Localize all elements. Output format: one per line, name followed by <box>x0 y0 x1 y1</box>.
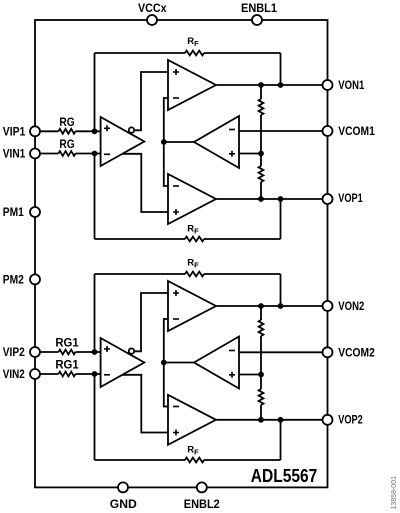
pin PM1 <box>30 207 40 217</box>
wire center vertical to - inputs ch1 <box>164 98 168 186</box>
minus sign top amp ch2 <box>173 318 179 320</box>
junction resistor midpoint ch1 <box>258 151 264 157</box>
minus sign top amp ch1 <box>173 97 179 99</box>
wire vocm amp - input to VCOM2 <box>239 351 323 353</box>
resistor RF (bottom ch2) <box>185 458 204 463</box>
wire top amp output to VON1 <box>216 84 323 86</box>
plus sign top amp ch2 <box>173 290 179 296</box>
op-amp top output stage ch1 <box>168 60 216 110</box>
plus sign input amp ch2 <box>104 346 110 352</box>
pin GND <box>118 482 128 492</box>
wire VIN2 to input amp - <box>40 373 100 375</box>
pin ENBL2 <box>197 482 207 492</box>
svg-text:PM2: PM2 <box>3 272 24 286</box>
wire top RF right tap ch1 <box>280 53 282 85</box>
wire bottom amp output to VOP1 <box>216 198 323 200</box>
pin VCOM1 <box>323 126 333 136</box>
pin VCCx <box>147 15 157 25</box>
pin VIN1 <box>30 149 40 159</box>
wire feedback left vertical upper ch1 <box>94 53 96 131</box>
junction VON2 feedback tap ch2 <box>278 303 284 309</box>
wire vocm amp + input to resistor midpoint ch1 <box>239 153 261 155</box>
svg-text:RG: RG <box>59 115 74 129</box>
op-amp top output stage ch2 <box>168 281 216 331</box>
op-amp input stage ch2 <box>101 338 145 387</box>
resistor RG (lower ch1) <box>59 151 76 156</box>
junction VON1 output node ch1 <box>258 82 264 88</box>
svg-text:VIP2: VIP2 <box>3 345 25 359</box>
op-amp input stage ch1 <box>101 117 145 166</box>
wire lower output to bottom amp + ch2 <box>122 375 169 433</box>
plus sign top amp ch1 <box>173 69 179 75</box>
minus sign input amp ch1 <box>104 153 110 155</box>
wire center vertical to - inputs ch2 <box>164 319 168 407</box>
inverting output bubble ch2 <box>129 348 134 353</box>
pin VOP2 <box>323 415 333 425</box>
op-amp vocm stage ch2 <box>194 337 239 389</box>
junction VIP1/RG node ch1 <box>92 128 98 134</box>
wire VIN1 to input amp - <box>40 153 100 155</box>
svg-text:ENBL2: ENBL2 <box>184 497 220 511</box>
svg-text:ADL5567: ADL5567 <box>251 465 318 486</box>
pin VIP2 <box>30 347 40 357</box>
wire bubble output to top amp + ch1 <box>135 72 168 130</box>
plus sign vocm amp ch1 <box>229 151 235 157</box>
wire top RF feedback ch1 <box>95 52 281 54</box>
wire top RF right tap ch2 <box>280 274 282 306</box>
pin PM2 <box>30 274 40 284</box>
inverting output bubble ch1 <box>129 127 134 132</box>
svg-text:13858-001: 13858-001 <box>391 476 398 510</box>
svg-text:VOP2: VOP2 <box>338 413 363 427</box>
svg-text:VON2: VON2 <box>338 299 364 313</box>
wire resistor chain ch1 <box>260 85 262 199</box>
svg-text:RF: RF <box>187 258 199 270</box>
plus sign bottom amp ch2 <box>173 430 179 436</box>
wire feedback left vertical upper ch2 <box>94 274 96 352</box>
wire bottom RF feedback ch1 <box>95 238 281 240</box>
op-amp bottom output stage ch2 <box>168 395 216 445</box>
wire resistor chain ch2 <box>260 306 262 420</box>
junction VON1 feedback tap ch1 <box>278 82 284 88</box>
wire bottom RF feedback ch2 <box>95 459 281 461</box>
svg-text:VIN1: VIN1 <box>3 147 26 161</box>
wire bottom amp output to VOP2 <box>216 419 323 421</box>
outer package border <box>35 20 328 487</box>
svg-text:VIN2: VIN2 <box>3 367 25 381</box>
wire bubble output to top amp + ch2 <box>135 293 168 351</box>
junction VOP2 feedback tap ch2 <box>278 417 284 423</box>
wire bottom RF right tap ch1 <box>280 199 282 239</box>
wire bottom RF right tap ch2 <box>280 420 282 460</box>
pin VIP1 <box>30 126 40 136</box>
svg-text:RG1: RG1 <box>55 336 79 350</box>
resistor RG1 (lower ch2) <box>59 372 76 377</box>
junction VIN1/RG node ch1 <box>92 151 98 157</box>
junction VIP2/RG1 node ch2 <box>92 349 98 355</box>
junction VOP1 output node ch1 <box>258 196 264 202</box>
svg-text:VCOM2: VCOM2 <box>338 345 375 359</box>
resistor RG1 (upper ch2) <box>59 350 76 355</box>
svg-text:VOP1: VOP1 <box>338 191 363 205</box>
minus sign vocm amp ch2 <box>229 350 235 352</box>
op-amp bottom output stage ch1 <box>168 174 216 224</box>
pin VIN2 <box>30 369 40 379</box>
pin VON2 <box>323 301 333 311</box>
svg-text:VON1: VON1 <box>338 78 364 92</box>
resistor RF (top ch1) <box>185 51 204 56</box>
wire lower output to bottom amp + ch1 <box>122 154 169 212</box>
pin VON1 <box>323 80 333 90</box>
plus sign vocm amp ch2 <box>229 372 235 378</box>
junction VOP1 feedback tap ch1 <box>278 196 284 202</box>
plus sign input amp ch1 <box>104 125 110 131</box>
svg-text:VCOM1: VCOM1 <box>338 124 375 138</box>
resistor RF (top ch2) <box>185 272 204 277</box>
pin VCOM2 <box>323 347 333 357</box>
svg-text:RF: RF <box>187 223 199 235</box>
junction resistor midpoint ch2 <box>258 372 264 378</box>
minus sign bottom amp ch1 <box>173 185 179 187</box>
resistor chain upper ch2 <box>259 320 264 336</box>
svg-text:RG1: RG1 <box>55 358 79 372</box>
junction VOP2 output node ch2 <box>258 417 264 423</box>
junction center node ch1 <box>161 139 167 145</box>
minus sign input amp ch2 <box>104 374 110 376</box>
svg-text:RF: RF <box>187 36 199 48</box>
junction center node ch2 <box>161 360 167 366</box>
pin ENBL1 <box>252 15 262 25</box>
wire VIP1 to input amp + <box>40 130 100 132</box>
pin VOP1 <box>323 194 333 204</box>
wire vocm amp - input to VCOM1 <box>239 130 323 132</box>
resistor chain lower ch2 <box>259 389 264 405</box>
wire top amp output to VON2 <box>216 305 323 307</box>
wire feedback left vertical lower ch1 <box>94 154 96 240</box>
svg-text:GND: GND <box>110 497 137 511</box>
resistor chain upper ch1 <box>259 99 264 115</box>
wire VIP2 to input amp + <box>40 351 100 353</box>
wire vocm amp + input to resistor midpoint ch2 <box>239 374 261 376</box>
svg-text:PM1: PM1 <box>3 205 24 219</box>
op-amp vocm stage ch1 <box>194 116 239 168</box>
wire top RF feedback ch2 <box>95 273 281 275</box>
minus sign vocm amp ch1 <box>229 129 235 131</box>
minus sign bottom amp ch2 <box>173 406 179 408</box>
resistor RF (bottom ch1) <box>185 237 204 242</box>
wire vocm amp output to center node ch1 <box>164 141 194 143</box>
svg-text:VCCx: VCCx <box>138 1 167 15</box>
plus sign bottom amp ch1 <box>173 209 179 215</box>
svg-text:ENBL1: ENBL1 <box>241 1 277 15</box>
svg-text:VIP1: VIP1 <box>3 124 26 138</box>
wire feedback left vertical lower ch2 <box>94 374 96 460</box>
resistor RG (upper ch1) <box>59 129 76 134</box>
resistor chain lower ch1 <box>259 166 264 182</box>
svg-text:RG: RG <box>59 137 74 151</box>
wire vocm amp output to center node ch2 <box>164 362 194 364</box>
junction VIN2/RG1 node ch2 <box>92 371 98 377</box>
svg-text:RF: RF <box>187 445 199 457</box>
junction VON2 output node ch2 <box>258 303 264 309</box>
